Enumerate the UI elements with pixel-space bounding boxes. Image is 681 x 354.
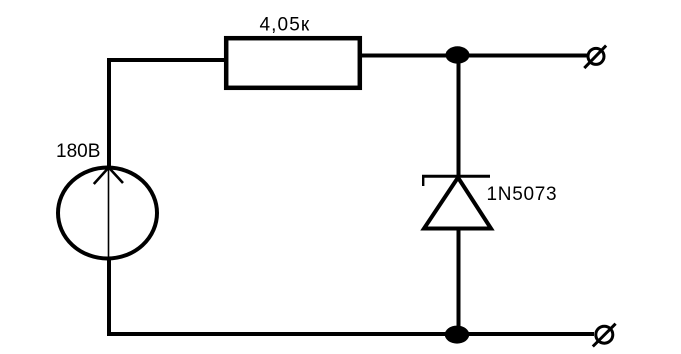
terminal bottom-right: [593, 324, 616, 347]
wire left vertical upper: [107, 58, 111, 168]
wire diode bottom to junction: [457, 228, 461, 334]
svg-text:4,05к: 4,05к: [260, 15, 311, 36]
svg-text:180В: 180В: [56, 141, 100, 162]
junction dot bottom: [445, 326, 469, 344]
wire left vertical lower: [107, 258, 111, 336]
wire junction to diode top: [457, 55, 461, 177]
junction dot top: [446, 46, 470, 63]
resistor: [226, 38, 360, 88]
svg-text:1N5073: 1N5073: [487, 184, 558, 205]
wire bottom horizontal: [107, 332, 594, 336]
terminal top-right: [584, 46, 606, 69]
zener diode 1N5073: [422, 175, 491, 229]
wire resistor to top terminal: [360, 54, 587, 58]
wire top-left horizontal: [107, 58, 226, 62]
voltage source 180В: [58, 168, 157, 260]
